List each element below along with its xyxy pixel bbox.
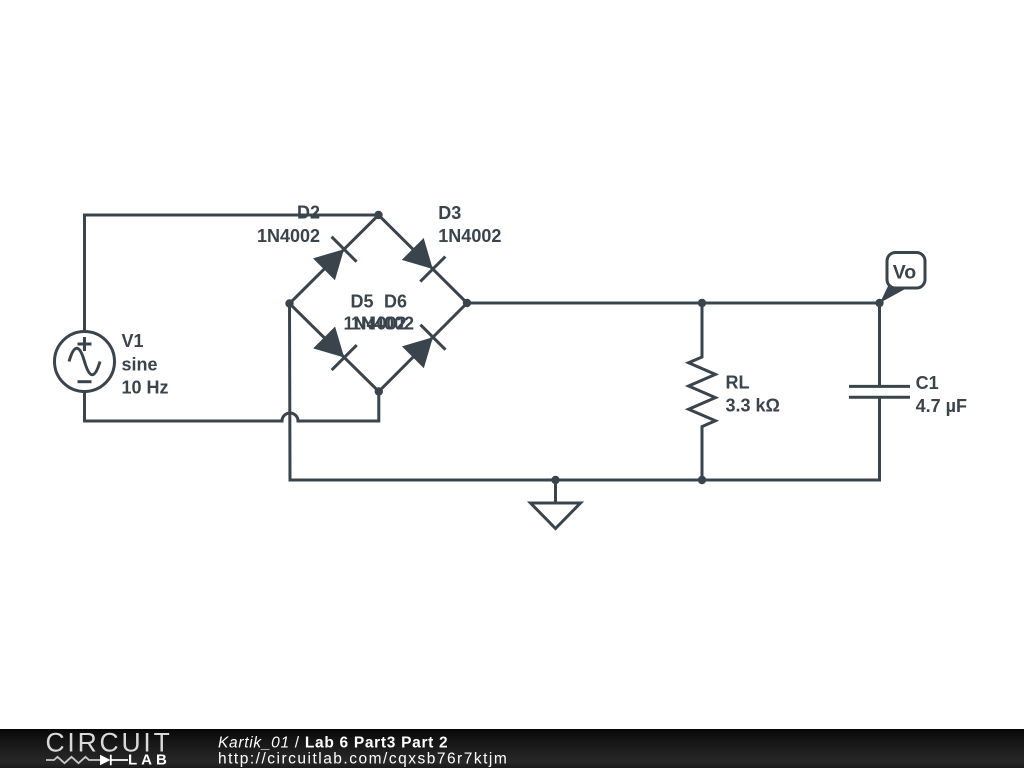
svg-text:C1: C1 [916, 373, 939, 393]
svg-text:D3: D3 [438, 203, 461, 223]
svg-text:http://circuitlab.com/cqxsb76r: http://circuitlab.com/cqxsb76r7ktjm [218, 751, 508, 768]
resistor RL [689, 303, 716, 480]
svg-text:sine: sine [122, 354, 158, 374]
footer bar [0, 729, 1024, 768]
svg-text:D2: D2 [297, 203, 320, 223]
junction node bottom of bridge [375, 387, 383, 395]
svg-text:RL: RL [726, 372, 750, 392]
junction node top of bridge [374, 211, 382, 219]
junction node left of bridge [285, 299, 293, 307]
node flag Vo [880, 253, 925, 303]
label V1 [122, 331, 169, 398]
svg-text:10 Hz: 10 Hz [122, 378, 169, 398]
voltage source V1 [55, 332, 115, 392]
svg-text:1N4002: 1N4002 [257, 226, 320, 246]
label C1 [916, 373, 967, 416]
label RL [726, 372, 780, 415]
ground [531, 480, 581, 529]
wire bridge left node down and bottom rail to C1 [290, 304, 880, 481]
svg-text:1N4002: 1N4002 [438, 226, 501, 246]
svg-text:Vo: Vo [893, 262, 917, 284]
svg-text:V1: V1 [122, 331, 144, 351]
svg-text:D5: D5 [351, 292, 374, 312]
footer logo schematic glyph [46, 755, 128, 765]
capacitor C1 [849, 303, 910, 397]
junction node RL top [698, 299, 706, 307]
svg-text:1N4002: 1N4002 [351, 314, 414, 334]
label D2 [257, 203, 320, 246]
svg-text:D6: D6 [384, 292, 407, 312]
wire bridge right node to Vo / C1 top [467, 302, 880, 305]
label D6 [351, 292, 414, 334]
svg-text:Kartik_01 / Lab 6 Part3 Part 2: Kartik_01 / Lab 6 Part3 Part 2 [218, 735, 448, 752]
junction node Vo / C1 top [875, 299, 883, 307]
diode D5 [313, 327, 357, 371]
junction node ground [551, 476, 559, 484]
wire V1 top to bridge top node [85, 215, 379, 332]
svg-text:4.7 µF: 4.7 µF [916, 396, 967, 416]
label D3 [438, 203, 501, 246]
label D5 [344, 292, 407, 334]
junction node RL bottom [698, 476, 706, 484]
diode D6 [402, 325, 446, 369]
diode D3 [402, 238, 446, 282]
wire V1 bottom to bridge bottom node (with hop over vertical wire) [85, 392, 379, 422]
wire bridge diamond sides [290, 215, 468, 392]
diode D2 [313, 237, 357, 281]
svg-text:3.3 kΩ: 3.3 kΩ [726, 396, 780, 416]
svg-text:LAB: LAB [128, 752, 171, 768]
junction node right of bridge [463, 299, 471, 307]
